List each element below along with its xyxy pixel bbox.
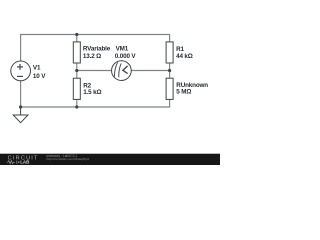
- svg-text:V1: V1: [33, 64, 41, 71]
- svg-text:1.5 kΩ: 1.5 kΩ: [83, 89, 101, 96]
- svg-text:0.000 V: 0.000 V: [115, 53, 137, 60]
- svg-text:5 MΩ: 5 MΩ: [176, 89, 191, 96]
- svg-text:http://circuitlab.com/c84aq3fy: http://circuitlab.com/c84aq3fytd: [46, 157, 89, 161]
- svg-text:44 kΩ: 44 kΩ: [176, 53, 193, 60]
- svg-text:RVariable: RVariable: [83, 46, 111, 53]
- svg-text:10 V: 10 V: [33, 73, 46, 80]
- svg-text:13.2 Ω: 13.2 Ω: [83, 53, 101, 60]
- svg-text:VM1: VM1: [116, 46, 129, 53]
- svg-text:LAB: LAB: [20, 160, 30, 165]
- svg-text:R1: R1: [176, 46, 184, 53]
